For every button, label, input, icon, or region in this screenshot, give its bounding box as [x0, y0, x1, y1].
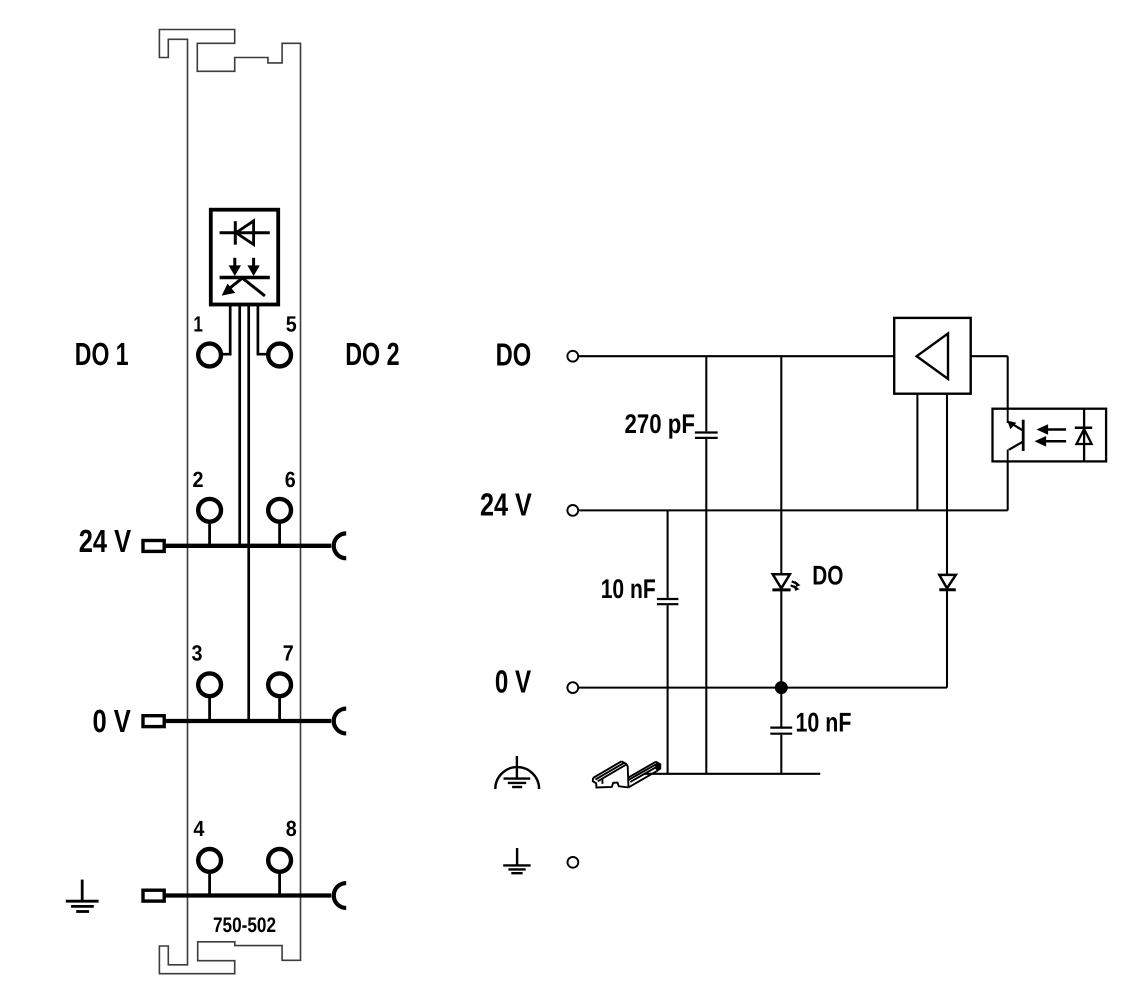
svg-text:DO 1: DO 1	[75, 336, 129, 372]
svg-text:3: 3	[192, 641, 203, 666]
svg-text:2: 2	[193, 467, 204, 492]
svg-text:10 nF: 10 nF	[796, 708, 852, 738]
svg-text:6: 6	[285, 467, 296, 492]
svg-text:0 V: 0 V	[93, 703, 132, 739]
svg-text:DO: DO	[812, 560, 843, 590]
svg-text:270 pF: 270 pF	[625, 409, 695, 439]
svg-text:7: 7	[283, 641, 294, 666]
svg-text:0 V: 0 V	[495, 663, 532, 699]
svg-text:DO 2: DO 2	[345, 336, 399, 372]
svg-text:4: 4	[193, 816, 205, 841]
svg-text:5: 5	[286, 312, 297, 337]
svg-text:750-502: 750-502	[213, 914, 276, 937]
svg-text:DO: DO	[496, 337, 532, 373]
svg-text:24 V: 24 V	[480, 487, 532, 523]
svg-text:10 nF: 10 nF	[601, 574, 656, 604]
svg-text:1: 1	[193, 312, 203, 337]
svg-text:8: 8	[286, 816, 297, 841]
svg-text:24 V: 24 V	[79, 523, 132, 559]
